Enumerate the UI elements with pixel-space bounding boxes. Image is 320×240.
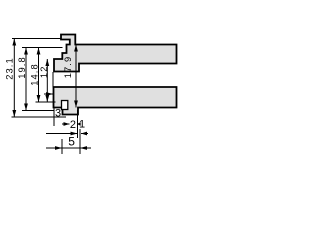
arrow dim2 left (right-pointing) xyxy=(64,122,70,126)
dim 5 line xyxy=(46,147,91,149)
svg-text:1: 1 xyxy=(79,119,85,131)
arrow dim1 (right-pointing) xyxy=(71,132,78,136)
svg-text:19.8: 19.8 xyxy=(17,56,27,79)
dim line 12 xyxy=(46,59,48,102)
arrow dim5 right outward xyxy=(80,146,87,150)
lower assembly: bottom bar + foot pad strip (gray section) xyxy=(54,87,177,115)
extension line bottom 23.1 xyxy=(12,116,67,118)
svg-text:17.9: 17.9 xyxy=(63,56,73,79)
arrow 17.9 top xyxy=(74,45,78,52)
extension line bottom 19.8 xyxy=(22,110,55,112)
dim line 23.1 xyxy=(13,39,15,118)
extension line bottom 14.8 and 12 xyxy=(36,101,56,103)
svg-text:3: 3 xyxy=(55,107,61,119)
dim 1 tail xyxy=(46,133,78,135)
foot notch (white box at bottom bar left end) xyxy=(62,101,68,110)
dim line 19.8 xyxy=(25,48,27,111)
arrow 23.1 top xyxy=(12,39,16,46)
svg-text:2: 2 xyxy=(70,119,76,131)
svg-text:14.8: 14.8 xyxy=(29,63,39,86)
svg-text:5: 5 xyxy=(68,135,75,149)
arrow 12 top xyxy=(45,59,49,66)
arrow pointer y94 xyxy=(46,92,53,96)
dim 2 right tail xyxy=(77,123,80,125)
arrow dim2 right (left-pointing) xyxy=(77,122,80,126)
ext vline between body and bar xyxy=(52,72,54,88)
svg-text:12: 12 xyxy=(39,66,49,79)
ext vline x77.5 (dim 2 right / dim 1 left) xyxy=(77,110,79,138)
arrow 14.8 bottom xyxy=(37,95,41,102)
dim 2 left tail xyxy=(62,123,70,125)
pointer at y94 xyxy=(44,93,53,95)
ext vline x54 (dim 3 left, below bar) xyxy=(53,108,55,127)
upper assembly: top hook block + top bar + stepped clip body (gray section) xyxy=(54,35,177,72)
dim line 17.9 xyxy=(75,45,77,108)
arrow 12 bottom xyxy=(45,95,49,102)
arrow dim5 left outward xyxy=(55,146,62,150)
dim 1 right tail xyxy=(81,133,88,135)
arrow 23.1 bottom xyxy=(12,110,16,117)
arrow dim1 right (left-pointing) xyxy=(81,132,87,136)
extension line top 19.8 and 14.8 xyxy=(22,47,63,49)
ext vline 5 right xyxy=(79,129,81,154)
arrow 19.8 bottom xyxy=(24,104,28,111)
arrow 14.8 top xyxy=(37,48,41,55)
arrow 19.8 top xyxy=(24,48,28,55)
arrow 17.9 bottom xyxy=(74,101,78,108)
extension line top 23.1 xyxy=(12,38,61,40)
svg-text:23.1: 23.1 xyxy=(4,57,14,80)
ext vline 5 left xyxy=(61,139,63,154)
dim line 14.8 xyxy=(38,48,40,103)
